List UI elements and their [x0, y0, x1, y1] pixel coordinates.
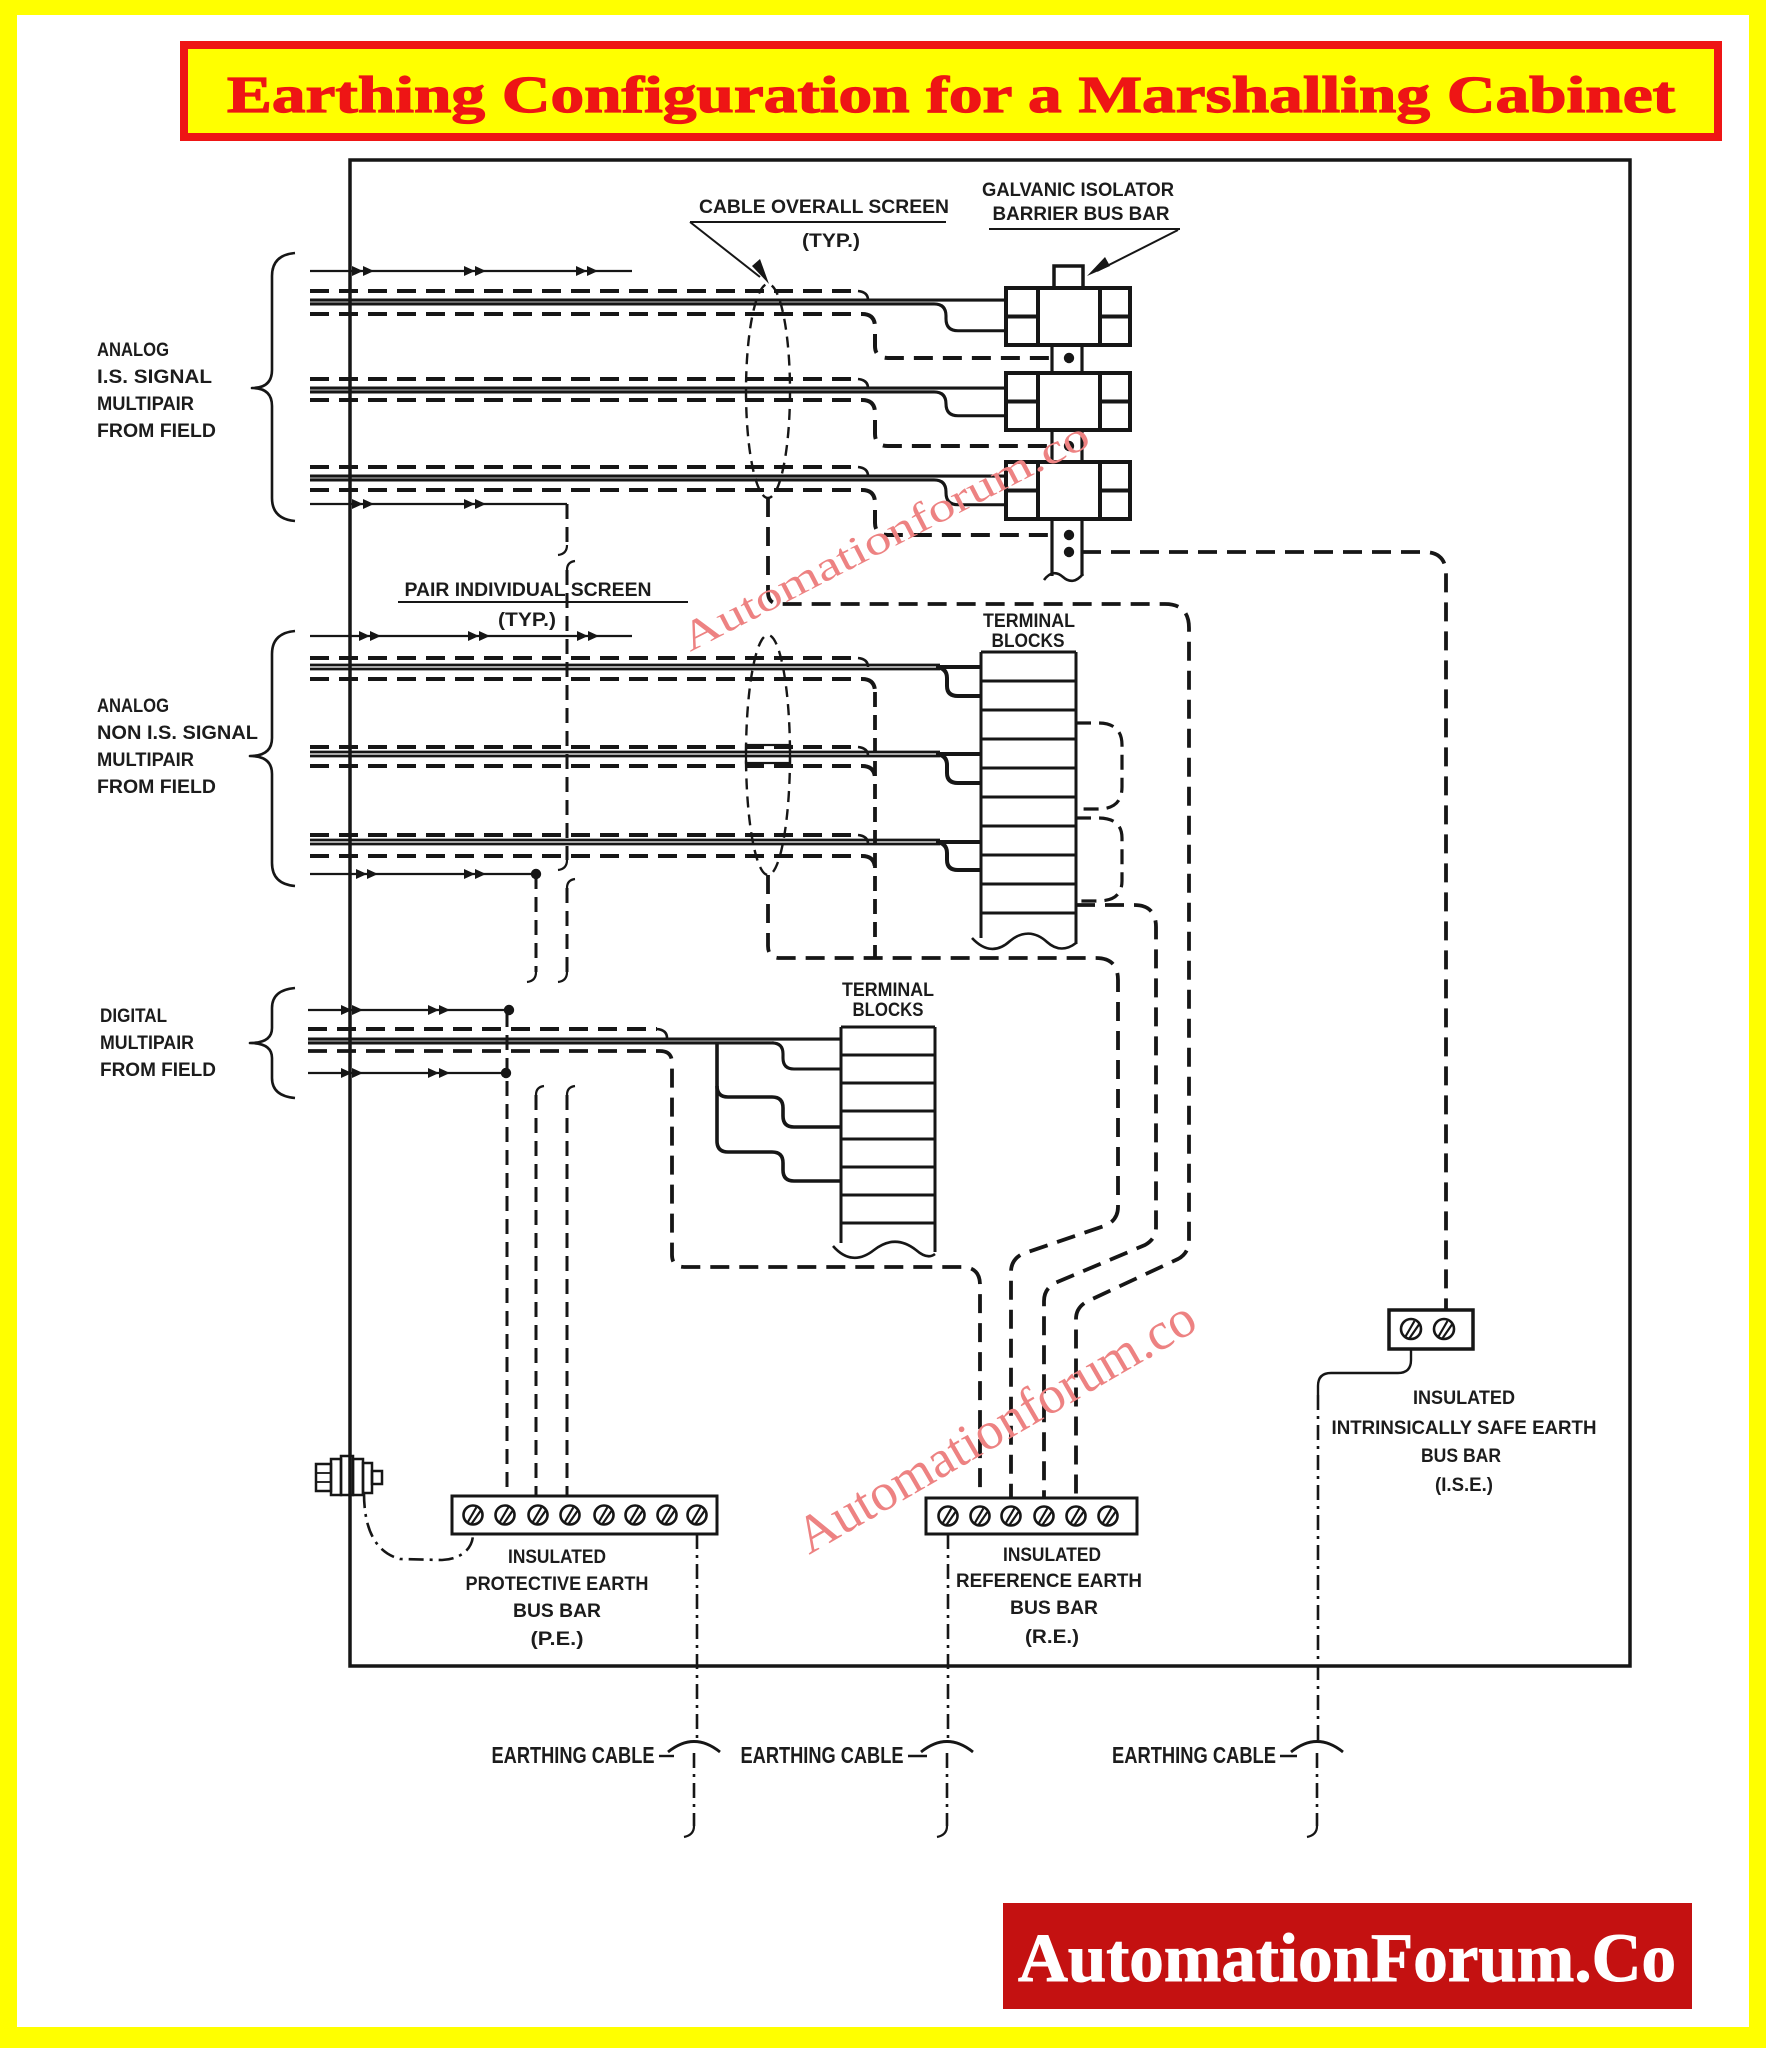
- svg-text:BUS BAR: BUS BAR: [513, 1601, 601, 1622]
- svg-text:TERMINAL: TERMINAL: [983, 611, 1075, 632]
- svg-text:EARTHING CABLE: EARTHING CABLE: [492, 1742, 655, 1768]
- svg-text:EARTHING CABLE: EARTHING CABLE: [1112, 1742, 1276, 1768]
- svg-text:BARRIER BUS BAR: BARRIER BUS BAR: [993, 204, 1170, 225]
- svg-text:EARTHING CABLE: EARTHING CABLE: [741, 1742, 904, 1768]
- svg-text:(P.E.): (P.E.): [531, 1629, 584, 1650]
- svg-text:NON I.S. SIGNAL: NON I.S. SIGNAL: [97, 723, 258, 744]
- svg-text:ANALOG: ANALOG: [97, 696, 169, 717]
- svg-text:PAIR INDIVIDUAL SCREEN: PAIR INDIVIDUAL SCREEN: [405, 580, 652, 601]
- svg-text:BUS BAR: BUS BAR: [1421, 1446, 1501, 1467]
- svg-text:MULTIPAIR: MULTIPAIR: [97, 394, 194, 415]
- svg-text:MULTIPAIR: MULTIPAIR: [100, 1033, 194, 1054]
- svg-text:INSULATED: INSULATED: [1003, 1545, 1101, 1566]
- svg-text:REFERENCE EARTH: REFERENCE EARTH: [956, 1571, 1142, 1592]
- svg-text:(R.E.): (R.E.): [1025, 1627, 1079, 1648]
- svg-text:FROM FIELD: FROM FIELD: [97, 421, 216, 442]
- svg-text:MULTIPAIR: MULTIPAIR: [97, 750, 194, 771]
- svg-text:Earthing Configuration for a M: Earthing Configuration for a Marshalling…: [227, 67, 1676, 124]
- svg-text:AutomationForum.Co: AutomationForum.Co: [1018, 1920, 1676, 1996]
- svg-text:ANALOG: ANALOG: [97, 340, 169, 361]
- svg-text:INSULATED: INSULATED: [508, 1547, 606, 1568]
- svg-text:DIGITAL: DIGITAL: [100, 1006, 167, 1027]
- svg-text:FROM FIELD: FROM FIELD: [100, 1060, 216, 1081]
- svg-text:BLOCKS: BLOCKS: [853, 1000, 924, 1021]
- svg-text:TERMINAL: TERMINAL: [842, 980, 934, 1001]
- svg-text:(TYP.): (TYP.): [498, 610, 556, 631]
- svg-text:CABLE OVERALL SCREEN: CABLE OVERALL SCREEN: [699, 197, 949, 218]
- svg-text:INSULATED: INSULATED: [1413, 1388, 1515, 1409]
- svg-text:PROTECTIVE EARTH: PROTECTIVE EARTH: [466, 1574, 649, 1595]
- svg-text:(TYP.): (TYP.): [802, 231, 860, 252]
- svg-text:BLOCKS: BLOCKS: [992, 631, 1065, 652]
- svg-text:GALVANIC ISOLATOR: GALVANIC ISOLATOR: [982, 180, 1174, 201]
- svg-text:(I.S.E.): (I.S.E.): [1435, 1475, 1493, 1496]
- svg-text:INTRINSICALLY SAFE EARTH: INTRINSICALLY SAFE EARTH: [1332, 1418, 1597, 1439]
- svg-text:FROM FIELD: FROM FIELD: [97, 777, 216, 798]
- svg-text:I.S. SIGNAL: I.S. SIGNAL: [97, 367, 212, 388]
- svg-text:BUS BAR: BUS BAR: [1010, 1598, 1098, 1619]
